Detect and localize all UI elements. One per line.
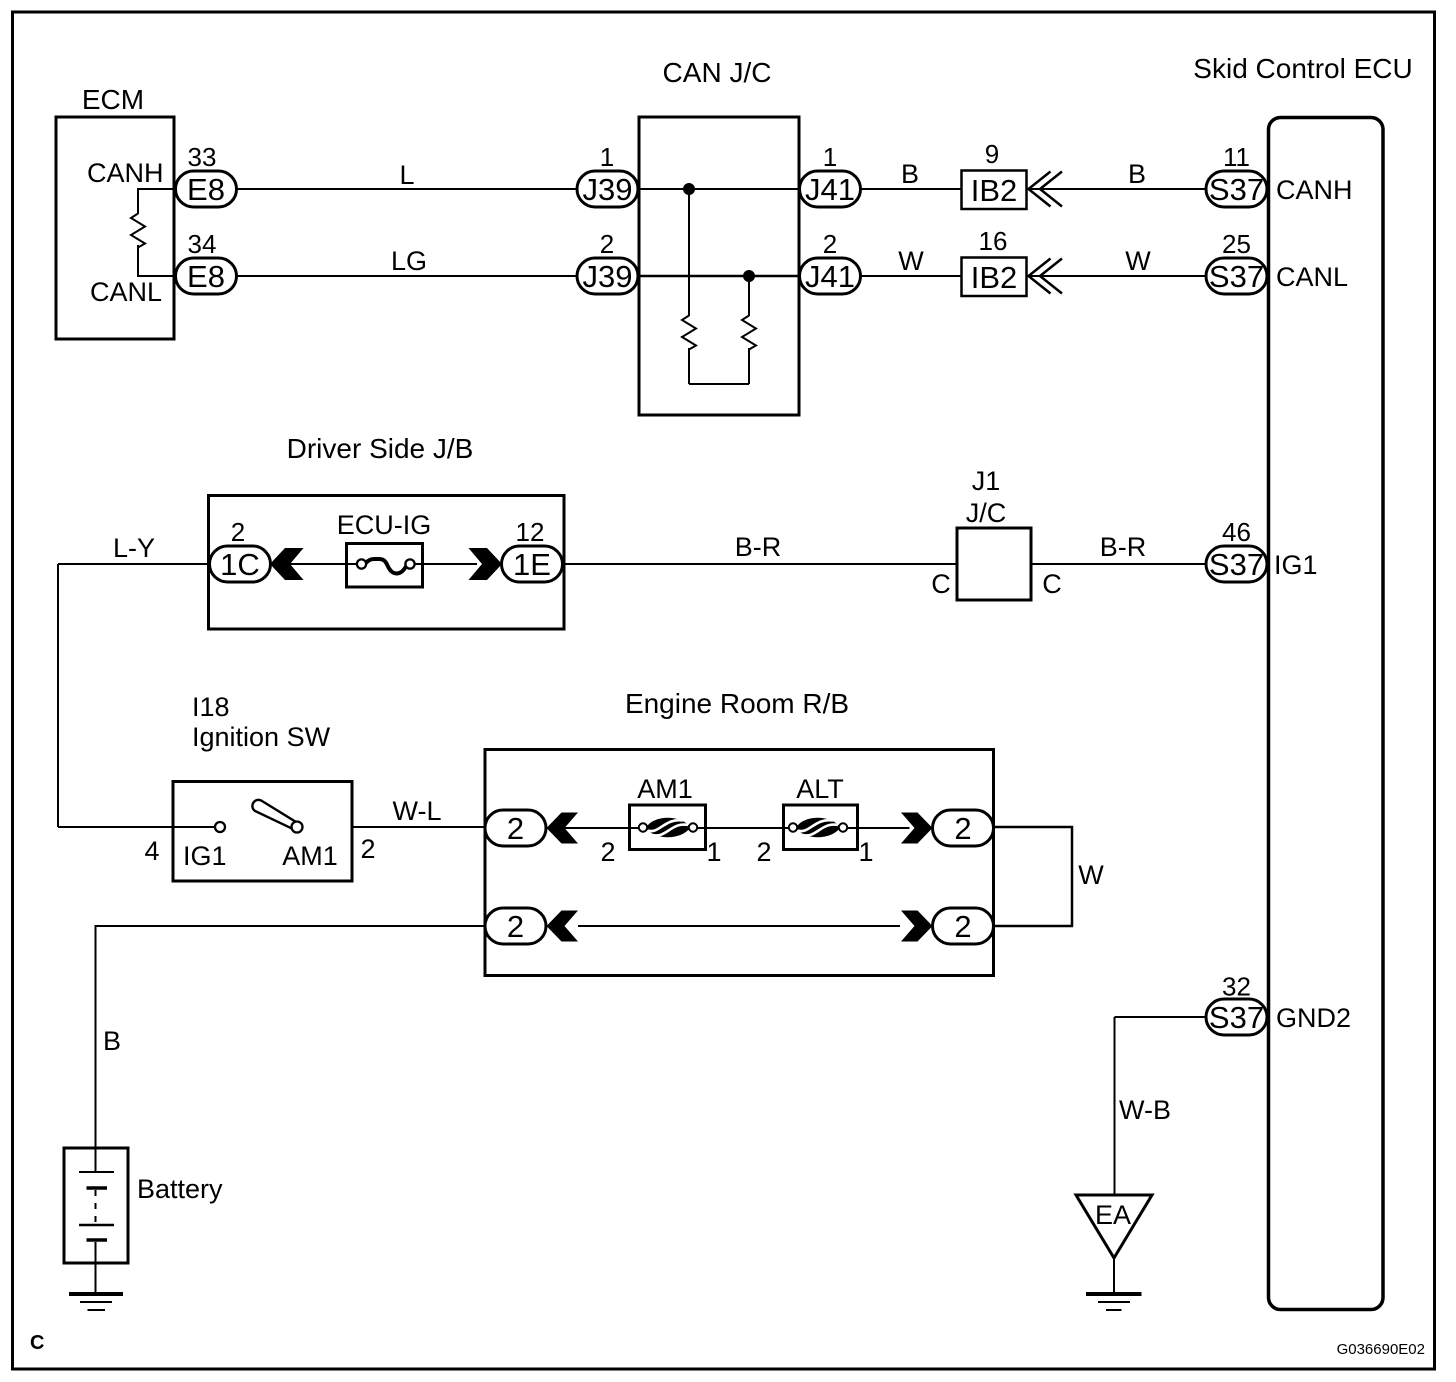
fusible link AM1 element bbox=[639, 818, 697, 838]
svg-text:1E: 1E bbox=[513, 547, 551, 582]
svg-text:S37: S37 bbox=[1209, 259, 1264, 294]
svg-text:Skid Control ECU: Skid Control ECU bbox=[1193, 53, 1412, 84]
Skid Control ECU box bbox=[1269, 118, 1384, 1310]
svg-text:46: 46 bbox=[1222, 517, 1251, 547]
resistor 2 (CAN term) bbox=[742, 316, 756, 350]
svg-text:1: 1 bbox=[706, 837, 721, 867]
svg-text:J1: J1 bbox=[972, 466, 1001, 496]
svg-text:CAN J/C: CAN J/C bbox=[663, 57, 772, 88]
connector J39 pin2 bbox=[577, 258, 638, 294]
svg-text:B-R: B-R bbox=[735, 532, 782, 562]
wire resistor 2 bottom bbox=[748, 348, 750, 384]
wire joining resistor bottoms bbox=[689, 383, 749, 385]
wire L (E8 to J39) bbox=[237, 188, 578, 190]
wire to AM1 link bbox=[547, 827, 630, 829]
svg-text:25: 25 bbox=[1222, 229, 1251, 259]
ignition switch I18 box bbox=[173, 782, 352, 882]
svg-text:S37: S37 bbox=[1209, 172, 1264, 207]
ground (EA) bbox=[1086, 1294, 1142, 1310]
svg-text:Engine Room R/B: Engine Room R/B bbox=[625, 688, 849, 719]
wire CANL inside CAN J/C bbox=[638, 275, 800, 278]
svg-text:CANL: CANL bbox=[1276, 262, 1348, 292]
svg-text:2: 2 bbox=[507, 909, 524, 944]
CAN J/C box bbox=[639, 117, 799, 415]
switch lever bbox=[252, 800, 296, 829]
svg-text:I18: I18 bbox=[192, 692, 230, 722]
svg-text:2: 2 bbox=[954, 909, 971, 944]
svg-text:J/C: J/C bbox=[966, 498, 1007, 528]
fusible link ALT element bbox=[789, 818, 847, 838]
svg-text:B-R: B-R bbox=[1100, 532, 1147, 562]
svg-text:J41: J41 bbox=[805, 172, 855, 207]
wire B (J41 to IB2) bbox=[861, 188, 962, 190]
arrow (row1 right) bbox=[901, 813, 933, 844]
svg-text:C: C bbox=[931, 569, 951, 599]
IG1 contact bbox=[215, 822, 225, 832]
Engine Room R/B box bbox=[485, 750, 994, 976]
arrow into 1E bbox=[469, 548, 503, 580]
fuse element bbox=[367, 559, 407, 574]
svg-text:34: 34 bbox=[188, 229, 217, 259]
svg-text:S37: S37 bbox=[1209, 547, 1264, 582]
connector S37 (IG1) bbox=[1206, 546, 1267, 582]
svg-text:9: 9 bbox=[985, 139, 999, 169]
svg-text:IB2: IB2 bbox=[971, 260, 1018, 295]
wire W-B vertical bbox=[1114, 1017, 1116, 1194]
svg-text:2: 2 bbox=[360, 834, 375, 864]
svg-text:2: 2 bbox=[756, 837, 771, 867]
wire row2 bbox=[578, 925, 900, 927]
wire ALT to arrow bbox=[858, 827, 910, 829]
wire resistor 1 bottom bbox=[688, 348, 690, 384]
svg-text:W: W bbox=[1078, 860, 1104, 890]
chevron pair (IB2 CANL) bbox=[1029, 259, 1051, 294]
connector J41 pin1 bbox=[800, 171, 861, 207]
connector IB2 (CANH) bbox=[962, 171, 1027, 210]
connector IB2 (CANL) bbox=[962, 258, 1027, 297]
fuse ECU-IG box bbox=[347, 544, 423, 588]
wire W (IB2 to S37) bbox=[1029, 275, 1208, 277]
svg-text:1: 1 bbox=[858, 837, 873, 867]
svg-text:ECM: ECM bbox=[82, 84, 144, 115]
wire stubs inside ALT box bbox=[785, 827, 794, 829]
fusible link ALT box bbox=[784, 805, 858, 850]
arrow into 1C bbox=[270, 548, 304, 580]
ground EA triangle bbox=[1076, 1195, 1152, 1258]
svg-text:EA: EA bbox=[1095, 1200, 1131, 1230]
wire B (IB2 to S37) bbox=[1029, 188, 1208, 190]
svg-text:Ignition SW: Ignition SW bbox=[192, 722, 331, 752]
svg-text:J41: J41 bbox=[805, 259, 855, 294]
connector S37 (CANH) bbox=[1206, 171, 1267, 207]
svg-text:B: B bbox=[103, 1026, 121, 1056]
battery cells bbox=[79, 1148, 114, 1263]
connector 1C bbox=[210, 546, 271, 582]
wire W-B horizontal bbox=[1115, 1016, 1208, 1018]
wire CANH stub inside ECM bbox=[138, 189, 175, 214]
svg-text:L-Y: L-Y bbox=[113, 533, 155, 563]
svg-text:ALT: ALT bbox=[796, 774, 844, 804]
svg-text:1: 1 bbox=[600, 142, 614, 172]
connector E8 (CANL) bbox=[176, 258, 237, 294]
svg-text:S37: S37 bbox=[1209, 1000, 1264, 1035]
connector 2 (row2 left) bbox=[485, 908, 546, 944]
wire W (J41 to IB2) bbox=[861, 275, 962, 277]
resistor 1 (CAN term) bbox=[682, 316, 696, 350]
svg-text:4: 4 bbox=[144, 836, 159, 866]
svg-text:B: B bbox=[901, 159, 919, 189]
AM1 contact bbox=[292, 822, 303, 833]
svg-text:E8: E8 bbox=[187, 172, 225, 207]
connector S37 (CANL) bbox=[1206, 258, 1267, 294]
svg-text:2: 2 bbox=[823, 229, 837, 259]
svg-text:1C: 1C bbox=[220, 547, 260, 582]
svg-text:AM1: AM1 bbox=[282, 841, 338, 871]
connector J41 pin2 bbox=[800, 258, 861, 294]
wire stubs inside AM1 box bbox=[631, 827, 640, 829]
svg-text:C: C bbox=[30, 1332, 44, 1354]
wire CANH inside CAN J/C bbox=[638, 188, 800, 190]
wire into IG1 contact bbox=[58, 826, 215, 828]
fusible link AM1 box bbox=[630, 805, 706, 850]
chevron pair (IB2 CANH) bbox=[1029, 172, 1051, 207]
svg-text:J39: J39 bbox=[583, 172, 633, 207]
wire W-L (switch to R/B) bbox=[352, 826, 485, 828]
svg-text:Battery: Battery bbox=[137, 1174, 223, 1204]
connector E8 (CANH) bbox=[176, 171, 237, 207]
svg-text:J39: J39 bbox=[583, 259, 633, 294]
svg-text:W-B: W-B bbox=[1119, 1095, 1171, 1125]
wire B-R (1E to J1) bbox=[563, 563, 958, 565]
svg-text:11: 11 bbox=[1223, 142, 1250, 172]
connector 2 (row1 left) bbox=[485, 810, 546, 846]
svg-text:B: B bbox=[1128, 159, 1146, 189]
junction node on CANH bbox=[683, 183, 695, 195]
wire B-R (J1 to S37) bbox=[1031, 563, 1207, 565]
wire 1C to fuse bbox=[272, 563, 347, 565]
battery box bbox=[64, 1148, 128, 1263]
wire resistor 2 drop bbox=[748, 276, 750, 316]
svg-text:E8: E8 bbox=[187, 259, 225, 294]
resistor (ECM terminating) bbox=[131, 214, 145, 248]
svg-text:CANL: CANL bbox=[90, 277, 162, 307]
svg-text:2: 2 bbox=[231, 517, 245, 547]
junction connector J1 box bbox=[957, 528, 1031, 600]
wire LG (E8 to J39) bbox=[237, 275, 578, 277]
wire fuse to arrow bbox=[423, 563, 478, 565]
svg-text:C: C bbox=[1042, 569, 1062, 599]
svg-text:CANH: CANH bbox=[1276, 175, 1353, 205]
connector 2 (row1 right) bbox=[933, 810, 994, 846]
junction node on CANL bbox=[743, 270, 755, 282]
wire EA to ground bbox=[1113, 1258, 1115, 1292]
svg-text:GND2: GND2 bbox=[1276, 1003, 1351, 1033]
svg-text:W: W bbox=[898, 246, 924, 276]
svg-text:2: 2 bbox=[600, 837, 615, 867]
wire CANL stub inside ECM bbox=[138, 245, 175, 276]
svg-text:32: 32 bbox=[1222, 972, 1251, 1002]
wire L-Y vertical bbox=[57, 564, 59, 827]
svg-text:AM1: AM1 bbox=[637, 774, 693, 804]
svg-text:L: L bbox=[399, 160, 414, 190]
wire battery to R/B bbox=[96, 926, 486, 1148]
wire L-Y horizontal bbox=[58, 563, 210, 565]
Driver Side J/B box bbox=[209, 496, 565, 630]
arrow (row2 left) bbox=[547, 911, 579, 942]
svg-text:Driver Side J/B: Driver Side J/B bbox=[287, 433, 474, 464]
svg-text:IG1: IG1 bbox=[1274, 550, 1318, 580]
wire stub right inside fuse bbox=[413, 563, 421, 565]
arrow (row2 right) bbox=[901, 911, 933, 942]
svg-text:G036690E02: G036690E02 bbox=[1337, 1341, 1425, 1358]
svg-text:12: 12 bbox=[516, 517, 545, 547]
wire battery to ground bbox=[95, 1263, 97, 1292]
svg-text:IB2: IB2 bbox=[971, 173, 1018, 208]
svg-text:W-L: W-L bbox=[392, 796, 441, 826]
svg-text:16: 16 bbox=[979, 226, 1008, 256]
wire stub left inside fuse bbox=[348, 563, 358, 565]
wire W loop bbox=[994, 827, 1073, 926]
svg-text:IG1: IG1 bbox=[183, 841, 227, 871]
connector 1E bbox=[502, 546, 563, 582]
svg-text:ECU-IG: ECU-IG bbox=[337, 510, 432, 540]
svg-text:2: 2 bbox=[507, 811, 524, 846]
connector J39 pin1 bbox=[577, 171, 638, 207]
ground (battery) bbox=[69, 1294, 123, 1310]
svg-text:1: 1 bbox=[823, 142, 837, 172]
connector S37 (GND2) bbox=[1206, 999, 1267, 1035]
ECM box bbox=[56, 117, 174, 339]
connector 2 (row2 right) bbox=[933, 908, 994, 944]
svg-text:33: 33 bbox=[188, 142, 217, 172]
svg-text:CANH: CANH bbox=[87, 158, 164, 188]
svg-text:LG: LG bbox=[391, 246, 427, 276]
svg-text:W: W bbox=[1125, 246, 1151, 276]
arrow (row1 left) bbox=[547, 813, 579, 844]
wire AM1 to ALT bbox=[706, 827, 784, 829]
svg-text:2: 2 bbox=[600, 229, 614, 259]
wire resistor 1 drop bbox=[688, 189, 690, 316]
svg-text:2: 2 bbox=[954, 811, 971, 846]
